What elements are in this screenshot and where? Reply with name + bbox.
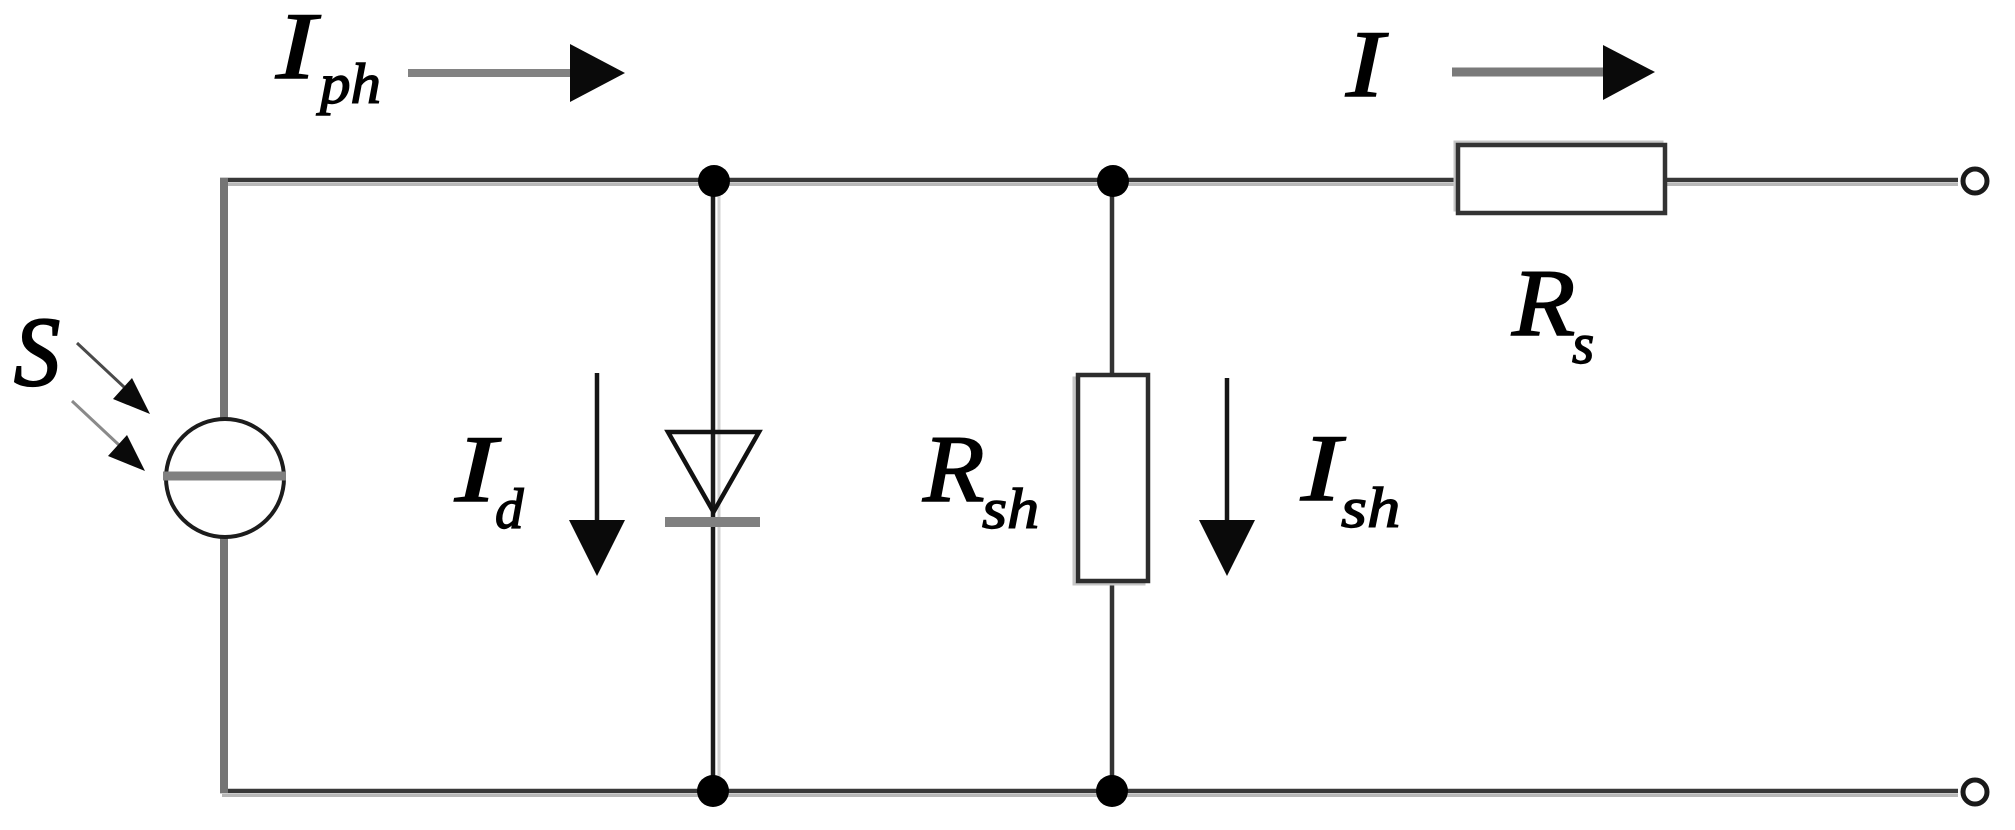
svg-text:d: d (495, 478, 524, 541)
arrow Iph head (570, 44, 625, 102)
terminal top right (1963, 169, 1987, 193)
resistor Rs body (1458, 145, 1665, 213)
wire diode branch echo (718, 185, 721, 788)
node bottom shunt junction (1096, 775, 1128, 807)
arrow I head (1603, 45, 1655, 100)
arrow Iph shaft (408, 69, 572, 77)
node top diode junction (698, 165, 730, 197)
arrow Id shaft (595, 373, 600, 524)
svg-text:S: S (14, 297, 60, 407)
wire shunt branch (1110, 178, 1115, 793)
S ray 1 shaft (77, 343, 124, 387)
svg-text:R: R (1511, 251, 1575, 356)
current source bar (163, 472, 286, 481)
current source S circle (166, 419, 284, 537)
svg-text:I: I (454, 416, 501, 521)
diode cathode bar (665, 517, 760, 527)
svg-text:ph: ph (316, 52, 381, 116)
arrow Ish head (1199, 520, 1255, 576)
arrow Ish shaft (1225, 378, 1230, 524)
S ray 2 shaft (72, 401, 119, 445)
arrow I shaft (1452, 68, 1604, 77)
resistor Rsh body echo (1074, 378, 1144, 584)
wire top bus (220, 178, 1958, 183)
svg-text:R: R (922, 418, 985, 523)
node top shunt junction (1097, 165, 1129, 197)
terminal bottom right (1963, 780, 1987, 804)
wire bottom bus (220, 789, 1958, 794)
svg-text:I: I (1300, 416, 1347, 521)
arrow Id head (569, 520, 625, 576)
S ray 2 head (108, 435, 145, 471)
wire left branch lower (220, 536, 228, 793)
wire top bus echo (222, 183, 1958, 186)
S ray 1 head (113, 378, 150, 414)
svg-text:I: I (1345, 11, 1388, 117)
diode triangle (668, 432, 759, 512)
wire diode branch (711, 178, 716, 793)
svg-text:sh: sh (982, 478, 1039, 541)
svg-text:s: s (1572, 313, 1594, 376)
resistor Rsh body (1078, 375, 1148, 581)
svg-text:I: I (275, 0, 322, 99)
svg-text:sh: sh (1341, 477, 1400, 539)
node bottom diode junction (697, 775, 729, 807)
wire left branch upper (220, 178, 228, 420)
resistor Rs body echo (1455, 142, 1662, 210)
wire bottom bus echo (222, 794, 1958, 797)
